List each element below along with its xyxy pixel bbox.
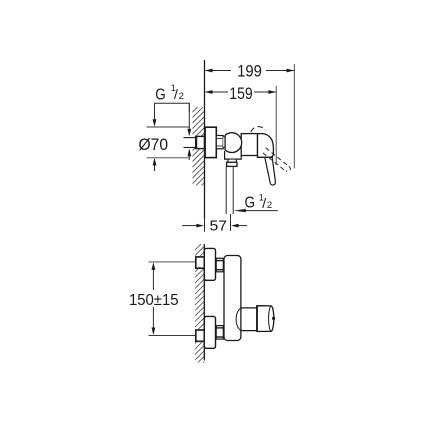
label G 1/2 (lower, hose outlet) [245, 192, 273, 211]
svg-text:57: 57 [210, 218, 228, 235]
wall face line (side view) [204, 60, 206, 219]
G1/2 bracket arrow left (to flange top) [153, 103, 157, 127]
Ø70 bottom extent line [147, 157, 190, 159]
lever heel arc (dashed) [251, 127, 266, 132]
in-wall nut [196, 136, 205, 148]
body bottom ledge under ball [225, 151, 242, 159]
wall hatching (front view) [195, 244, 204, 363]
pipe lower arrow (up, at x=189.3) [187, 149, 191, 160]
wall hatching (side view) [188, 95, 210, 200]
housing end cap [258, 134, 274, 158]
spout neck curve inside body [236, 308, 241, 331]
svg-text:G: G [245, 195, 256, 212]
top supply nut behind wall [196, 257, 205, 268]
extension line top connection [149, 261, 197, 263]
svg-text:2: 2 [267, 200, 272, 211]
svg-text:150±15: 150±15 [129, 292, 179, 309]
extension line for 199 [293, 64, 295, 169]
connector neck [223, 137, 226, 148]
extension line bottom connection [149, 335, 197, 337]
escutcheon (wall plate, side view) [205, 127, 216, 157]
Ø70 top extent line [147, 126, 190, 128]
svg-text:Ø70: Ø70 [139, 135, 169, 154]
svg-text:G: G [155, 86, 166, 103]
hose pipe [226, 167, 233, 215]
ball joint (left side flattened at neck) [225, 133, 242, 153]
G1/2 reference bracket [155, 103, 190, 112]
dimension 57 [182, 214, 247, 235]
hose union nut [227, 162, 237, 166]
bottom union connector [216, 326, 223, 340]
outlet stub [228, 159, 237, 162]
lever handle (solid) [265, 157, 276, 185]
top escutcheon (front view) [204, 248, 215, 280]
outlet stub (front view) [241, 308, 257, 331]
handle knob (front view) [257, 306, 274, 332]
bottom escutcheon (front view) [204, 316, 215, 348]
top union connector [216, 258, 223, 272]
svg-text:/: / [174, 86, 178, 102]
dimension 150±15 [129, 262, 179, 335]
svg-text:/: / [262, 195, 266, 211]
supply pipe behind wall [184, 138, 197, 148]
svg-text:159: 159 [229, 85, 252, 103]
extension line for 159 [275, 86, 277, 165]
svg-text:199: 199 [237, 62, 262, 80]
dimension 159 [205, 90, 277, 94]
G1/2 leader with arrow [234, 209, 278, 212]
knob end-cap ellipse edge [269, 306, 272, 331]
svg-text:2: 2 [179, 91, 184, 102]
union hex nut [216, 136, 223, 149]
knob center dot [272, 317, 275, 320]
body (front view) [224, 256, 241, 341]
G1/2 bracket arrow right (to pipe) [187, 103, 191, 136]
Ø70 lower arrow (up, outside) [153, 158, 157, 171]
knob left edge [256, 306, 258, 332]
lever handle raised (dashed) [263, 148, 291, 171]
bottom supply nut behind wall [196, 330, 205, 341]
cartridge housing [241, 134, 257, 156]
dimension 199 [205, 69, 295, 73]
label G 1/2 (top, supply thread) [155, 83, 184, 104]
wall face line (front view) [203, 244, 205, 361]
